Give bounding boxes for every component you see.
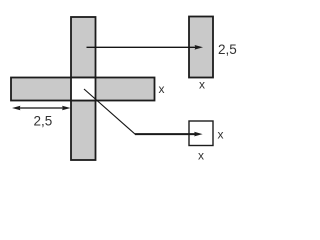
svg-text:x: x — [218, 128, 224, 142]
callout line from center square — [84, 89, 136, 135]
bottom-right white square — [189, 121, 213, 146]
svg-text:x: x — [198, 149, 204, 163]
svg-text:x: x — [199, 78, 205, 92]
arrow to bottom-right square — [135, 132, 203, 137]
horizontal bar of cross — [11, 78, 155, 101]
arrow from top arm to top-right rectangle — [87, 45, 204, 50]
dimension arrow 2,5 bottom-left — [12, 106, 71, 111]
svg-text:2,5: 2,5 — [34, 114, 53, 129]
svg-text:2,5: 2,5 — [218, 42, 237, 57]
vertical bar of cross — [71, 17, 96, 160]
center white square — [71, 78, 96, 101]
top-right gray rectangle — [189, 17, 213, 78]
svg-text:x: x — [159, 82, 165, 96]
